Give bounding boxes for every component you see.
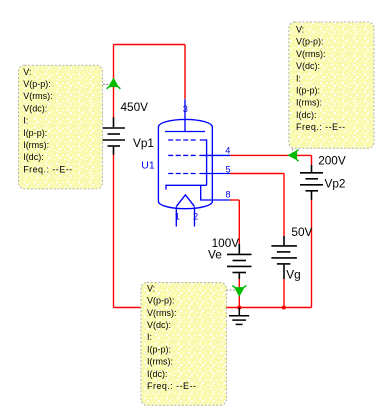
svg-text:3: 3 xyxy=(183,104,188,114)
junction at Ve/ground on bottom rail xyxy=(237,306,241,310)
wire: pin 5 drop into Vg xyxy=(283,174,285,237)
wire: bottom ground rail xyxy=(114,307,312,309)
probe connector dashes (left) xyxy=(103,83,111,85)
svg-text:Vp1: Vp1 xyxy=(133,136,154,150)
ground xyxy=(229,308,249,325)
svg-text:I(p-p):: I(p-p): xyxy=(23,128,47,138)
wire: Vp2 - down to bottom rail xyxy=(311,200,313,308)
probe connector dashes (right) xyxy=(292,149,294,153)
probe annotation box (left) xyxy=(19,65,103,189)
plate (anode) xyxy=(165,131,205,133)
pin 2 lead xyxy=(194,207,196,227)
svg-text:V:: V: xyxy=(296,25,304,35)
svg-text:V(rms):: V(rms): xyxy=(296,49,326,59)
wire: pin 8 stub to Ve drop xyxy=(230,199,239,201)
battery Ve xyxy=(227,244,252,279)
wire: Vg - down to bottom rail xyxy=(283,279,285,308)
wire: pin 8 drop into Ve xyxy=(238,200,240,244)
svg-text:100V: 100V xyxy=(212,236,240,250)
battery Vp1 xyxy=(102,117,125,155)
svg-text:V(dc):: V(dc): xyxy=(147,320,171,330)
svg-text:Freq.: --E--: Freq.: --E-- xyxy=(23,164,72,174)
tube U1 xyxy=(158,99,230,226)
svg-text:V(dc):: V(dc): xyxy=(23,103,47,113)
svg-text:I(p-p):: I(p-p): xyxy=(296,86,320,96)
svg-text:I:: I: xyxy=(147,332,152,342)
svg-text:5: 5 xyxy=(226,164,231,174)
svg-text:I:: I: xyxy=(23,116,28,126)
wire: pin 4 to right rail xyxy=(230,154,312,156)
svg-text:V(p-p):: V(p-p): xyxy=(147,296,175,306)
svg-text:V(rms):: V(rms): xyxy=(147,308,177,318)
heater filament xyxy=(176,195,194,207)
svg-text:V:: V: xyxy=(23,67,31,77)
svg-text:I(rms):: I(rms): xyxy=(147,357,173,367)
junction at Vg on bottom rail xyxy=(282,306,286,310)
grid g3 (dashed, tied to cathode) xyxy=(168,139,197,141)
svg-text:4: 4 xyxy=(225,146,230,156)
probe connector dashes (bottom) xyxy=(226,289,235,291)
svg-text:50V: 50V xyxy=(291,225,312,239)
svg-text:I(rms):: I(rms): xyxy=(23,140,49,150)
probe arrow up on Vp1 branch xyxy=(107,78,121,88)
svg-text:I(rms):: I(rms): xyxy=(296,98,322,108)
svg-text:U1: U1 xyxy=(141,160,155,172)
wire: Vp1 - down to bottom rail xyxy=(113,155,115,308)
wire: left vertical from top rail down to Vp1 + xyxy=(113,45,115,118)
svg-text:I(dc):: I(dc): xyxy=(147,369,168,379)
svg-text:Freq.: --E--: Freq.: --E-- xyxy=(147,381,196,391)
probe arrow down on Ve ground branch xyxy=(232,285,246,295)
wire: right rail top into Vp2 xyxy=(311,155,313,165)
svg-text:200V: 200V xyxy=(318,154,346,168)
probe annotation box (bottom) xyxy=(141,283,226,406)
grid g2 (dashed) to pin 4 xyxy=(168,154,197,156)
svg-text:I:: I: xyxy=(296,73,301,83)
svg-text:V(p-p):: V(p-p): xyxy=(23,79,51,89)
pin 3 lead xyxy=(184,99,186,131)
pin 1 lead xyxy=(175,207,177,227)
battery Vg xyxy=(271,236,297,279)
svg-text:Vg: Vg xyxy=(286,267,300,281)
svg-text:1: 1 xyxy=(175,211,180,221)
svg-text:V(dc):: V(dc): xyxy=(296,61,320,71)
wire: Ve - down to bottom rail xyxy=(238,279,240,308)
svg-text:I(dc):: I(dc): xyxy=(296,110,317,120)
probe arrow left on pin 4 wire xyxy=(288,150,298,162)
grid g1 (dashed) to pin 5 xyxy=(168,173,197,175)
svg-text:V(rms):: V(rms): xyxy=(23,91,53,101)
svg-text:450V: 450V xyxy=(121,100,149,114)
svg-text:Vp2: Vp2 xyxy=(325,177,346,191)
svg-text:Freq.: --E--: Freq.: --E-- xyxy=(296,122,345,132)
cathode lead to pin 8 xyxy=(201,185,230,200)
svg-text:2: 2 xyxy=(193,211,198,221)
svg-text:8: 8 xyxy=(226,190,231,200)
svg-text:V(p-p):: V(p-p): xyxy=(296,37,324,47)
svg-text:V:: V: xyxy=(147,283,155,293)
svg-text:I(p-p):: I(p-p): xyxy=(147,344,171,354)
cathode xyxy=(166,185,207,189)
wire: top rail from Vp1 to plate drop xyxy=(114,44,186,46)
envelope xyxy=(158,119,212,208)
wire: pin 5 horizontal xyxy=(230,173,284,175)
wire: plate drop to tube pin 3 xyxy=(184,45,186,100)
svg-text:I(dc):: I(dc): xyxy=(23,152,44,162)
probe annotation box (top right) xyxy=(289,22,374,148)
battery Vp2 xyxy=(300,165,323,200)
